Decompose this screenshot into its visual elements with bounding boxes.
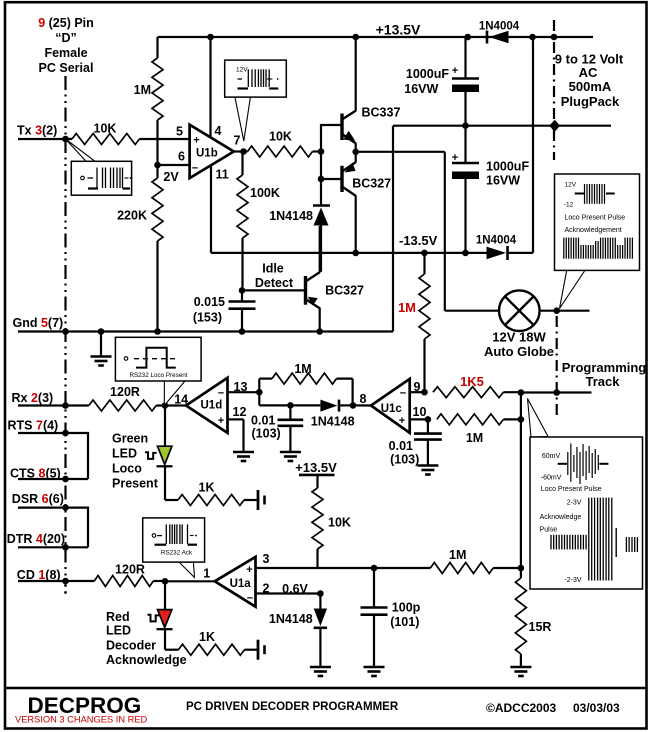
svg-text:Rx 2(3): Rx 2(3)	[12, 391, 54, 405]
svg-text:3: 3	[263, 552, 270, 566]
svg-text:12V: 12V	[236, 67, 248, 74]
wire 120R to node	[156, 404, 165, 406]
callout Tx RS232 waveform	[66, 139, 96, 161]
wire divider mid	[156, 139, 158, 165]
wire 10K to driver base node	[313, 150, 322, 152]
wire track feed	[521, 391, 592, 393]
svg-text:14: 14	[174, 393, 188, 407]
transistor Q2 BC327 (driver)	[340, 166, 343, 192]
wire BC337 base	[321, 124, 342, 126]
wire U1a output	[165, 580, 215, 582]
node 0.01 tap	[287, 402, 294, 409]
resistor 120R (Rx)	[89, 400, 156, 411]
node BC337 collector rail	[352, 34, 359, 41]
svg-text:Pulse: Pulse	[540, 526, 558, 533]
resistor 100K	[241, 152, 243, 176]
svg-text:9 (25) Pin: 9 (25) Pin	[38, 16, 94, 30]
svg-text:16VW: 16VW	[404, 82, 438, 96]
svg-text:BC337: BC337	[362, 106, 401, 120]
svg-text:1N4148: 1N4148	[269, 209, 313, 223]
svg-text:1M: 1M	[294, 362, 311, 376]
wire 1K red to ground	[244, 649, 258, 651]
node AC pin top	[551, 34, 558, 41]
node BC327 collector rail	[352, 250, 359, 257]
svg-text:−: −	[218, 388, 224, 400]
wire U1c pin10	[410, 418, 428, 420]
svg-text:10K: 10K	[269, 130, 292, 144]
wire 1M to track node	[493, 567, 521, 569]
capacitor 0.01 (U1d)	[289, 405, 291, 419]
wire RTS	[18, 433, 88, 479]
svg-text:15R: 15R	[529, 620, 552, 634]
node pin4 rail	[207, 34, 214, 41]
svg-text:500mA: 500mA	[569, 79, 612, 94]
svg-text:©ADCC2003: ©ADCC2003	[486, 701, 557, 715]
resistor 15R	[520, 568, 522, 578]
wire U1a node to red LED	[164, 581, 166, 609]
node pin9	[421, 389, 428, 396]
svg-text:(153): (153)	[193, 311, 222, 325]
node DTR pin	[62, 544, 69, 551]
node cap junction 0V	[462, 122, 469, 129]
svg-text:1K5: 1K5	[460, 374, 484, 389]
node 0.015 ground	[239, 328, 246, 335]
capacitor C2 1000uF 16VW	[464, 126, 466, 162]
wire lamp to track	[540, 310, 590, 312]
resistor 1K5	[433, 387, 503, 398]
svg-text:(103): (103)	[252, 427, 281, 441]
node cap1 rail	[464, 34, 471, 41]
node pin2 diode tap	[317, 590, 324, 597]
node pin10	[425, 416, 432, 423]
svg-text:-2-3V: -2-3V	[564, 577, 581, 584]
svg-text:220K: 220K	[117, 209, 147, 223]
callout track pulses	[528, 399, 549, 438]
svg-text:+: +	[246, 564, 252, 576]
svg-text:Acknowledge: Acknowledge	[540, 514, 582, 521]
svg-text:Present: Present	[112, 477, 159, 491]
resistor 1M (U1d feedback)	[258, 379, 260, 393]
op-amp U1a	[215, 557, 256, 607]
capacitor C1 1000uF 16VW	[464, 37, 466, 78]
svg-text:“D”: “D”	[55, 31, 77, 45]
node Rx junction	[162, 402, 169, 409]
svg-text:Green: Green	[112, 432, 148, 446]
wire 0V rail	[393, 125, 611, 127]
svg-text:120R: 120R	[115, 563, 145, 577]
resistor 1K (green)	[178, 495, 244, 506]
diode D4 1N4148 (detector)	[320, 400, 337, 412]
wire U1b output	[234, 150, 248, 152]
wire U1b pin6	[158, 164, 190, 166]
title block separator	[5, 687, 647, 689]
svg-text:-60mV: -60mV	[541, 475, 562, 482]
wire +13.5V rail	[158, 36, 594, 38]
capacitor 0.01 (U1c)	[427, 419, 429, 433]
node cap2 rail	[462, 250, 469, 257]
diode D1 1N4004 (positive rect)	[486, 31, 489, 44]
ground (100p)	[364, 667, 385, 676]
node idle base	[239, 287, 246, 294]
svg-text:Decoder: Decoder	[106, 639, 156, 653]
callout RS232 Loco Present	[164, 381, 185, 406]
svg-text:+: +	[452, 65, 458, 77]
svg-text:Loco Present Pulse: Loco Present Pulse	[565, 215, 626, 222]
svg-text:12V: 12V	[565, 181, 577, 188]
svg-text:0.015: 0.015	[194, 295, 225, 309]
svg-text:03/03/03: 03/03/03	[573, 701, 620, 715]
+13.5V stub bar	[299, 474, 335, 477]
svg-text:Acknowledgement: Acknowledgement	[565, 227, 622, 234]
diode D5 1N4148 (U1a clamp)	[319, 594, 321, 609]
svg-text:10K: 10K	[328, 516, 351, 530]
wire Rx node to LED	[164, 406, 166, 447]
wire output down to lamp	[444, 152, 446, 311]
svg-text:1N4004: 1N4004	[476, 235, 517, 247]
svg-text:10K: 10K	[94, 122, 117, 136]
wire red LED to 1K	[164, 629, 166, 650]
wire -13.5V rail	[211, 252, 487, 254]
svg-text:100p: 100p	[392, 601, 421, 615]
svg-text:10: 10	[413, 405, 427, 419]
transistor Q1 BC337	[340, 114, 343, 141]
svg-text:LED: LED	[106, 624, 131, 638]
svg-text:120R: 120R	[110, 385, 140, 399]
node U1b output	[240, 148, 247, 155]
svg-text:PC Serial: PC Serial	[39, 61, 94, 75]
op-amp U1b	[190, 125, 234, 178]
svg-text:Programming: Programming	[562, 360, 647, 375]
wire U1d output	[165, 404, 186, 406]
track dash-dot line	[556, 316, 558, 415]
svg-text:1M: 1M	[449, 548, 466, 562]
svg-text:0.01: 0.01	[389, 439, 413, 453]
svg-text:2V: 2V	[163, 170, 179, 184]
node track junction	[518, 389, 525, 396]
node Tx pin	[62, 136, 69, 143]
diode D3 1N4148 (driver clamp)	[313, 204, 330, 206]
svg-text:11: 11	[216, 168, 229, 182]
svg-text:DSR 6(6): DSR 6(6)	[12, 492, 64, 506]
resistor 10K (U1b out)	[248, 146, 313, 157]
op-amp U1d	[186, 378, 228, 433]
svg-text:1K: 1K	[199, 630, 215, 644]
node push-pull emitters	[352, 149, 359, 156]
svg-text:1M: 1M	[398, 300, 416, 315]
svg-text:U1c: U1c	[381, 403, 403, 415]
wire 1K5 to track node	[503, 391, 521, 393]
capacitor 0.015 (153)	[241, 290, 243, 301]
svg-text:Female: Female	[44, 46, 87, 60]
resistor 1M (U1c pin10)	[437, 414, 504, 425]
svg-text:PlugPack: PlugPack	[561, 94, 620, 109]
svg-text:7: 7	[234, 134, 241, 148]
svg-text:Gnd 5(7): Gnd 5(7)	[13, 316, 64, 330]
wire U1c pin9	[410, 391, 425, 393]
svg-text:16VW: 16VW	[486, 174, 520, 188]
wire Tx	[18, 138, 72, 140]
lamp 12V 18W auto globe	[499, 290, 540, 331]
LED green squiggle	[145, 452, 157, 459]
wire U1d pin12	[228, 418, 244, 420]
wire output to lamp	[445, 310, 499, 312]
ground (15R)	[510, 667, 531, 676]
node ground symbol stem	[98, 328, 105, 335]
node Rx pin	[62, 402, 69, 409]
resistor 1K (red)	[178, 644, 244, 655]
wire Rx	[18, 404, 89, 406]
wire idle base	[242, 289, 306, 291]
wire 0V riser	[392, 126, 394, 332]
node pin13	[256, 389, 263, 396]
resistor 10K (U1a bias)	[316, 475, 318, 488]
wire U1a pin3	[256, 567, 431, 569]
svg-text:−: −	[400, 388, 406, 400]
svg-text:5: 5	[176, 125, 183, 139]
svg-text:U1a: U1a	[230, 578, 252, 590]
node DSR pin	[62, 504, 69, 511]
svg-text:PC DRIVEN DECODER PROGRAMMER: PC DRIVEN DECODER PROGRAMMER	[186, 701, 399, 713]
node lamp track tap	[553, 307, 560, 314]
connector boundary dash-dot line	[64, 76, 66, 578]
svg-text:Idle: Idle	[262, 262, 284, 276]
ground (U1c cap)	[417, 466, 438, 475]
wire DTR	[18, 546, 88, 548]
node 220K to ground rail	[154, 328, 161, 335]
wire track riser	[520, 393, 522, 569]
node AC centre tap	[549, 120, 560, 132]
svg-text:12: 12	[233, 405, 247, 419]
svg-text:Tx 3(2): Tx 3(2)	[17, 124, 57, 138]
wire U1a pin2	[256, 592, 321, 594]
node RTS pin	[62, 430, 69, 437]
wire AC feed riser	[532, 37, 534, 253]
plugpack boundary dash-dot line	[553, 20, 555, 160]
ground (U1a diode)	[310, 667, 331, 676]
node CTS pin	[62, 476, 69, 483]
wire Tx to U1b pin5	[139, 138, 189, 140]
node BC327 base	[318, 176, 325, 183]
callout 12V waveform	[235, 97, 251, 141]
diode D2 1N4004 (negative rect)	[487, 247, 507, 260]
svg-text:AC: AC	[579, 65, 598, 80]
svg-text:+: +	[193, 135, 199, 147]
resistor 120R (CD)	[94, 576, 153, 587]
node track pin	[553, 389, 560, 396]
svg-text:+13.5V: +13.5V	[295, 460, 337, 475]
svg-text:1N4004: 1N4004	[479, 21, 520, 33]
node track sense	[518, 565, 525, 572]
ground (green LED)	[258, 490, 265, 510]
svg-text:Auto Globe: Auto Globe	[484, 344, 554, 359]
node AC top feed	[529, 34, 536, 41]
callout Loco Present Pulse Acknowledgement	[560, 270, 585, 308]
wire pin13 link	[258, 392, 260, 405]
svg-text:Detect: Detect	[255, 276, 294, 290]
svg-text:Acknowledge: Acknowledge	[106, 653, 187, 667]
wire U1d pin13	[228, 391, 260, 393]
ground (rail)	[91, 357, 112, 366]
LED red (decoder ack)	[158, 610, 172, 628]
svg-text:0.6V: 0.6V	[282, 582, 308, 596]
svg-text:2-3V: 2-3V	[567, 499, 582, 506]
svg-text:+: +	[399, 415, 405, 427]
wire U1b pin4 to +13.5V	[209, 37, 211, 138]
node divider 2V	[154, 162, 161, 169]
svg-text:Track: Track	[586, 374, 621, 389]
svg-text:U1d: U1d	[201, 400, 223, 412]
node U1a input junction	[162, 578, 169, 585]
svg-text:Red: Red	[106, 610, 130, 624]
ground (U1d pin12)	[233, 452, 254, 461]
svg-text:1000uF: 1000uF	[486, 160, 529, 174]
op-amp U1c	[371, 379, 410, 433]
wire CD	[18, 580, 94, 582]
resistor 220K (divider bottom)	[156, 165, 158, 178]
svg-text:8: 8	[360, 392, 367, 406]
svg-text:Loco Present Pulse: Loco Present Pulse	[541, 486, 602, 493]
wire to U1c tip	[353, 404, 371, 406]
svg-text:RTS 7(4): RTS 7(4)	[8, 419, 59, 433]
node 100p tap	[371, 565, 378, 572]
svg-text:−: −	[247, 593, 253, 605]
svg-text:1N4148: 1N4148	[269, 612, 313, 626]
svg-text:BC327: BC327	[352, 177, 391, 191]
svg-text:1000uF: 1000uF	[406, 67, 449, 81]
svg-text:6: 6	[178, 150, 185, 164]
node U1c input	[350, 402, 357, 409]
resistor 1M (U1c bias)	[423, 253, 425, 274]
resistor 1M (divider top)	[156, 37, 158, 58]
svg-text:RS232 Loco Present: RS232 Loco Present	[129, 372, 187, 379]
svg-text:0.01: 0.01	[251, 414, 275, 428]
svg-text:RS232 Ack: RS232 Ack	[161, 550, 193, 557]
svg-text:1K: 1K	[199, 481, 215, 495]
wire driver node riser	[320, 124, 322, 206]
wire 120R to U1a node	[153, 580, 165, 582]
svg-text:-12: -12	[564, 201, 574, 208]
wire DSR	[18, 508, 88, 548]
svg-text:(103): (103)	[390, 453, 419, 467]
svg-text:12V 18W: 12V 18W	[492, 330, 546, 345]
resistor 10K (Tx input)	[72, 134, 139, 145]
svg-text:-13.5V: -13.5V	[399, 233, 438, 248]
svg-text:4: 4	[215, 124, 222, 138]
node driver base	[318, 148, 325, 155]
ground (red LED)	[258, 640, 265, 660]
svg-text:LED: LED	[112, 447, 137, 461]
LED red squiggle	[148, 615, 160, 622]
svg-text:BC327: BC327	[325, 284, 364, 298]
node 1M track riser	[518, 416, 525, 423]
node CD pin	[62, 578, 69, 585]
svg-text:(101): (101)	[390, 615, 419, 629]
svg-text:+: +	[218, 415, 224, 427]
wire CTS	[18, 478, 88, 480]
svg-text:60mV: 60mV	[542, 453, 561, 460]
capacitor 100p (101)	[373, 568, 375, 607]
svg-text:1: 1	[203, 567, 210, 581]
resistor 1M (U1a to track)	[430, 563, 493, 574]
svg-text:DTR 4(20): DTR 4(20)	[7, 532, 65, 546]
wire ground rail	[18, 330, 393, 332]
wire 1K to ground	[244, 499, 258, 501]
svg-text:100K: 100K	[250, 186, 280, 200]
svg-text:U1b: U1b	[196, 148, 218, 160]
node idle emitter ground	[316, 328, 323, 335]
svg-text:1M: 1M	[134, 83, 151, 97]
wire emitter output	[356, 151, 445, 153]
LED green (loco present)	[158, 446, 172, 464]
callout RS232 Ack	[179, 562, 195, 577]
svg-text:+13.5V: +13.5V	[376, 22, 421, 38]
wire BC327 base	[321, 178, 342, 180]
svg-text:VERSION 3 CHANGES IN RED: VERSION 3 CHANGES IN RED	[15, 715, 148, 725]
svg-text:1N4148: 1N4148	[311, 415, 355, 429]
svg-text:Loco: Loco	[112, 462, 142, 476]
node Gnd pin	[62, 328, 69, 335]
wire 1M to track riser	[503, 418, 521, 420]
ground (U1d cap)	[280, 452, 301, 461]
transistor Q3 BC327 (idle detect)	[304, 276, 307, 305]
wire LED to 1K	[164, 466, 166, 500]
svg-text:−: −	[192, 163, 198, 175]
wire U1b pin11 to -13.5V	[210, 165, 212, 253]
svg-text:1M: 1M	[466, 431, 483, 445]
node 1M rail	[421, 250, 428, 257]
